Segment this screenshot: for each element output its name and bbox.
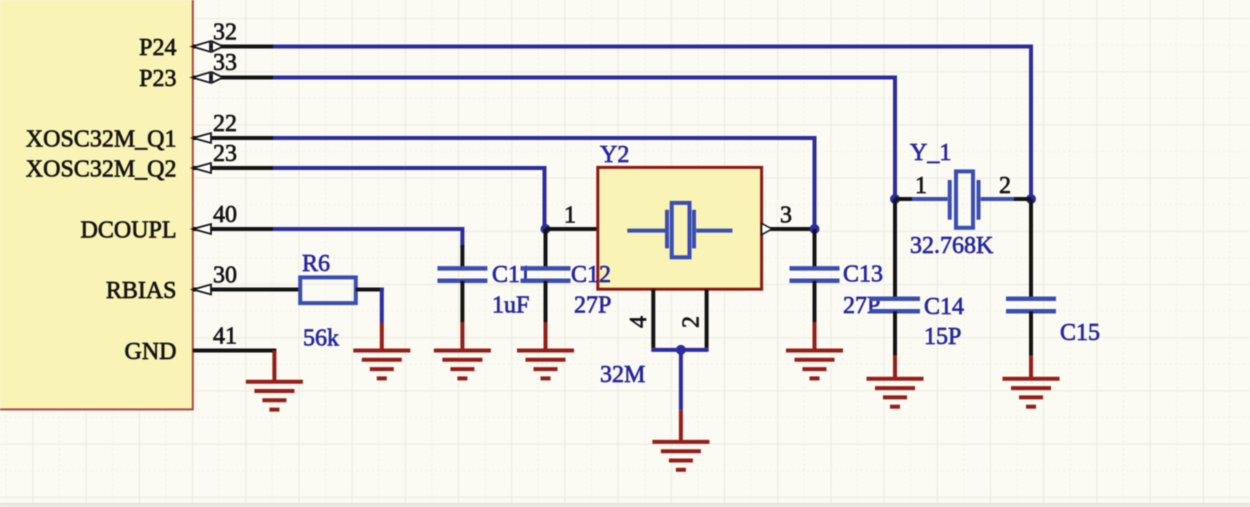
Y2 pin 2 stub — [705, 289, 709, 348]
C13 ground stem — [813, 322, 817, 351]
C12 bottom link — [544, 281, 548, 322]
C15 ground stem — [1029, 356, 1033, 379]
wire C11 top link — [460, 245, 464, 268]
svg-text:C12: C12 — [571, 262, 611, 288]
pin 32 I/O arrows — [192, 41, 223, 51]
svg-text:32: 32 — [213, 20, 237, 46]
svg-text:41: 41 — [213, 324, 237, 350]
svg-text:1uF: 1uF — [492, 293, 529, 319]
svg-text:P24: P24 — [139, 35, 176, 61]
svg-text:22: 22 — [213, 111, 237, 137]
junction node Y_1 pin2 — [1026, 194, 1036, 204]
ground under C12 — [517, 351, 574, 379]
crystal Y_1 symbol — [912, 171, 1014, 227]
C13 bottom link — [813, 281, 817, 322]
junction node C12/Q2 — [541, 224, 551, 234]
svg-text:40: 40 — [213, 202, 237, 228]
junction node C13/Q1 — [810, 224, 820, 234]
pin 30 input arrow — [193, 285, 211, 295]
pin 41 stub — [193, 349, 277, 353]
pin 30 stub — [193, 288, 300, 292]
svg-text:DCOUPL: DCOUPL — [80, 218, 176, 244]
capacitor C13 — [790, 268, 840, 280]
svg-text:C15: C15 — [1060, 320, 1100, 346]
Y2 pin 3 arrow — [762, 223, 772, 234]
junction node Y_1 pin1 — [890, 194, 900, 204]
pin 32 stub — [193, 45, 273, 49]
GND pin ground stem — [272, 351, 276, 382]
wire net XOSC32M_Q1 — [273, 138, 815, 229]
svg-text:27P: 27P — [574, 293, 611, 319]
wire net P23 — [273, 78, 895, 200]
svg-text:C11: C11 — [492, 262, 531, 288]
Y2 ground drop wire — [679, 350, 683, 410]
ground under C14 — [867, 379, 924, 407]
junction node Y2 bottom — [676, 345, 686, 355]
Y2 pin 1 wire — [546, 227, 598, 231]
C15 bottom link — [1029, 311, 1033, 355]
svg-text:GND: GND — [125, 339, 177, 365]
svg-text:33: 33 — [213, 50, 237, 76]
resistor R6 — [300, 277, 356, 303]
Y_1 pin 1 wire — [895, 197, 913, 201]
svg-text:3: 3 — [780, 203, 792, 229]
svg-text:1: 1 — [564, 203, 576, 229]
Y2 pin 4 stub — [651, 289, 655, 348]
R6 right wire — [356, 288, 384, 292]
svg-text:RBIAS: RBIAS — [106, 278, 177, 304]
wire net P24 — [273, 47, 1031, 200]
Y2 pin 3 wire — [762, 227, 815, 231]
C11 bottom link — [460, 281, 464, 322]
svg-text:1: 1 — [915, 173, 927, 199]
svg-text:R6: R6 — [302, 251, 330, 277]
Y2 crystal symbol — [627, 203, 732, 257]
C14 ground stem — [893, 356, 897, 379]
svg-text:56k: 56k — [303, 326, 339, 352]
C15 top link — [1029, 199, 1033, 299]
capacitor C14 — [870, 299, 920, 312]
svg-text:32M: 32M — [600, 362, 645, 388]
svg-text:XOSC32M_Q2: XOSC32M_Q2 — [26, 157, 177, 183]
bottom edge band — [0, 503, 1250, 507]
C12 top link — [544, 229, 548, 268]
svg-text:15P: 15P — [924, 324, 961, 350]
ground under Y2 — [652, 442, 709, 470]
C14 top link — [893, 199, 897, 299]
svg-text:P23: P23 — [139, 66, 176, 92]
R6 ground drop wire — [380, 288, 384, 324]
Y2 bottom joining wire — [651, 348, 708, 352]
C13 top link — [813, 229, 817, 268]
pin 22 input arrow — [193, 133, 211, 143]
ground under R6 — [353, 351, 410, 379]
Y_1 pin 2 wire — [1013, 197, 1031, 201]
svg-text:C13: C13 — [843, 262, 883, 288]
svg-text:C14: C14 — [924, 294, 964, 320]
pin 22 stub — [193, 136, 273, 140]
C12 ground stem — [544, 322, 548, 351]
ground under C13 — [786, 351, 843, 379]
svg-text:23: 23 — [213, 141, 237, 167]
wire net DCOUPL — [273, 229, 462, 247]
svg-text:2: 2 — [679, 316, 705, 328]
svg-text:XOSC32M_Q1: XOSC32M_Q1 — [26, 127, 177, 153]
C11 ground stem — [460, 322, 464, 351]
svg-text:Y2: Y2 — [600, 142, 629, 168]
crystal Y2 body — [598, 167, 762, 289]
svg-text:2: 2 — [999, 173, 1011, 199]
Y2 ground stem — [679, 410, 683, 442]
pin 33 stub — [193, 76, 273, 80]
C14 bottom link — [893, 311, 897, 355]
pin 23 input arrow — [193, 163, 211, 173]
pin 33 I/O arrows — [192, 72, 223, 82]
svg-text:4: 4 — [626, 316, 652, 328]
ground under C11 — [434, 351, 491, 379]
capacitor C15 — [1006, 299, 1056, 312]
svg-text:30: 30 — [213, 263, 237, 289]
pin 40 stub — [193, 227, 273, 231]
ground under GND pin — [246, 382, 303, 410]
pin 23 stub — [193, 166, 273, 170]
capacitor C11 — [437, 268, 487, 280]
R6 ground stem — [380, 323, 384, 351]
pin 40 input arrow — [193, 224, 211, 234]
capacitor C12 — [521, 268, 571, 280]
ground under C15 — [1003, 379, 1060, 407]
svg-text:32.768K: 32.768K — [910, 233, 994, 259]
IC U1 body — [0, 0, 193, 409]
svg-text:Y_1: Y_1 — [910, 140, 951, 166]
wire net XOSC32M_Q2 — [273, 168, 545, 229]
